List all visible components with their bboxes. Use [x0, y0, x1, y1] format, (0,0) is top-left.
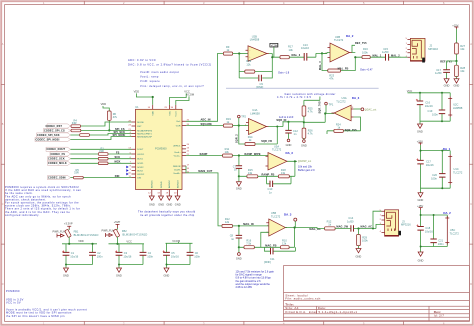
svg-text:C6: C6 — [195, 251, 199, 255]
svg-text:DGND: DGND — [161, 181, 163, 188]
IC U1 top pin names vertical — [153, 111, 178, 117]
jack J2 — [406, 38, 439, 62]
U2B feedback loop wires — [239, 54, 280, 79]
note: gain reduction divider — [277, 92, 336, 99]
wire VCC bottom rail — [119, 265, 143, 269]
svg-text:100k: 100k — [362, 239, 368, 243]
svg-text:VinL: delayed ramp, env-in, or: VinL: delayed ramp, env-in, or aux sync? — [140, 84, 204, 88]
capacitor C2 100n — [89, 243, 103, 265]
capacitor C17 10u/16 — [417, 160, 434, 167]
svg-text:TLC272: TLC272 — [450, 231, 460, 235]
svg-text:VCOM: VCOM — [172, 239, 180, 243]
svg-text:13k: 13k — [289, 48, 294, 52]
svg-text:FB1: FB1 — [74, 230, 79, 234]
svg-text:PCM3060: PCM3060 — [6, 289, 20, 293]
note: buffer gain — [298, 164, 315, 172]
svg-text:TLC272: TLC272 — [271, 214, 281, 218]
wire CODEC_SCK — [71, 158, 132, 160]
svg-text:CODEC_RST: CODEC_RST — [46, 125, 63, 128]
junction ramp fb node — [238, 175, 240, 177]
svg-text:100n: 100n — [194, 254, 200, 258]
ground VCC cluster right — [417, 124, 423, 133]
svg-text:12k: 12k — [282, 241, 287, 245]
svg-text:10u/16: 10u/16 — [425, 104, 433, 108]
global label CODEC_DOUT — [46, 147, 71, 151]
svg-text:SCKI1: SCKI1 — [137, 163, 144, 165]
svg-text:VoutL+: VoutL+ — [174, 154, 182, 157]
resistor R20 12k into mag — [222, 217, 232, 228]
resistor R15 13k — [247, 168, 258, 178]
wire SQR_IN to divider — [289, 121, 304, 124]
op-amp U3B TLC272 — [325, 35, 352, 62]
svg-text:D: D — [2, 282, 4, 286]
capacitor C1 10u/16 — [63, 244, 79, 265]
capacitor C22 1u/50 — [435, 64, 450, 79]
svg-text:DA_3: DA_3 — [352, 96, 360, 100]
resistor R17 13k — [280, 44, 293, 59]
svg-text:10k and 10k: 10k and 10k — [298, 164, 313, 168]
svg-text:MAG_IN: MAG_IN — [243, 223, 254, 226]
opamp power unit U2C LM4558 — [448, 97, 463, 118]
svg-text:DA_3: DA_3 — [284, 212, 292, 216]
svg-text:A: A — [470, 42, 472, 46]
svg-text:10k: 10k — [460, 47, 465, 51]
svg-text:tie all grounds together under: tie all grounds together under the chip — [140, 213, 195, 217]
svg-text:DOUT: DOUT — [137, 149, 144, 151]
svg-text:REF_7V5: REF_7V5 — [355, 42, 367, 45]
svg-text:B: B — [2, 122, 4, 126]
svg-text:configured individually.: configured individually. — [5, 213, 40, 217]
ground VDD cluster — [63, 268, 69, 278]
svg-text:10u/16: 10u/16 — [426, 163, 434, 167]
wire VCC rail — [109, 243, 145, 245]
svg-text:VDD: VDD — [134, 90, 140, 94]
svg-text:Buffer gain 2.0: Buffer gain 2.0 — [298, 168, 315, 172]
ground bottom right cluster — [418, 252, 424, 263]
wire VDD bottom rail — [66, 265, 93, 269]
svg-text:CODEC_SPI_SCK: CODEC_SPI_SCK — [37, 134, 60, 137]
svg-text:TLC272: TLC272 — [272, 148, 282, 152]
svg-text:MP3216: MP3216 — [428, 47, 438, 51]
junction U3B output — [354, 56, 356, 58]
svg-text:1u/50: 1u/50 — [435, 71, 442, 75]
ground VCOM cluster — [164, 268, 170, 278]
svg-text:C5: C5 — [171, 251, 175, 255]
svg-text:ADC_IN: ADC_IN — [201, 119, 211, 122]
global label REF_7V5 at U3B — [352, 42, 367, 53]
svg-text:LRCK2: LRCK2 — [137, 174, 145, 176]
wire U3B input from junction — [322, 53, 330, 54]
op-amp U5B TLC272 — [266, 211, 287, 236]
svg-text:33R: 33R — [72, 121, 77, 125]
wire CODEC_SPI_SCK — [71, 134, 132, 136]
svg-text:47k: 47k — [113, 115, 118, 119]
svg-text:C: C — [470, 202, 472, 206]
svg-text:RAMP_WIPE: RAMP_WIPE — [245, 153, 261, 156]
svg-text:GND: GND — [454, 84, 460, 88]
capacitor C3 10u/16 — [116, 244, 132, 265]
svg-text:DIN: DIN — [137, 178, 141, 180]
ground VCC cluster — [116, 268, 122, 278]
power flag +5VP — [102, 220, 121, 237]
svg-text:10u/16: 10u/16 — [123, 254, 131, 258]
svg-text:RAMP: RAMP — [200, 153, 208, 156]
svg-text:100n: 100n — [431, 176, 437, 180]
svg-text:C18: C18 — [425, 226, 430, 230]
wire CODEC_SPI_MOSI — [71, 137, 132, 140]
note: system clock paragraph — [5, 185, 81, 217]
ground under R26 — [301, 140, 307, 148]
capacitor C19 100n — [428, 109, 446, 116]
svg-text:MS/SDA/SCKF: MS/SDA/SCKF — [137, 136, 152, 139]
svg-text:10u/16: 10u/16 — [425, 229, 433, 233]
resistor R6 47k pull-up — [107, 111, 117, 131]
junction U2B output — [271, 56, 273, 58]
note: ADC/DAC voltage ranges — [128, 58, 212, 88]
capacitor C15 1u/50 series — [382, 47, 389, 61]
svg-text:DA_2: DA_2 — [443, 211, 451, 215]
capacitor C5 10u/16 — [163, 243, 179, 264]
global label CODEC_SPI_MOSI — [35, 137, 71, 141]
svg-text:100n: 100n — [432, 112, 438, 116]
IC U1 bottom pin stubs — [152, 190, 178, 197]
global label CODEC_FS — [50, 152, 71, 156]
svg-text:MCK: MCK — [115, 161, 121, 164]
U4B feedback loop R24 — [327, 117, 361, 134]
IC U1 top pin stubs — [153, 105, 176, 109]
global label CODEC_SPI_SCK — [37, 133, 71, 137]
svg-text:GND: GND — [301, 143, 307, 147]
svg-text:FB2: FB2 — [122, 229, 127, 233]
wire CODEC_SDIN to DIN — [71, 177, 132, 179]
wire VCOM bottom rail — [167, 265, 191, 269]
svg-text:100n: 100n — [97, 254, 103, 258]
capacitor C11 DNF — [264, 247, 295, 264]
junction divider mid — [303, 121, 305, 123]
svg-text:DA_1: DA_1 — [443, 147, 451, 151]
capacitor C13 10u/16 series — [301, 43, 309, 61]
svg-text:MP3216: MP3216 — [401, 223, 411, 227]
decoupling cluster VCC (U2/U4) — [407, 89, 450, 124]
no-connect marks on unused pins — [126, 166, 128, 176]
junction U2B input node — [238, 52, 240, 54]
svg-text:7.5k: 7.5k — [246, 241, 252, 245]
svg-text:12k: 12k — [225, 220, 230, 224]
svg-text:RST: RST — [137, 126, 142, 128]
capacitor C4 100n — [140, 244, 154, 265]
svg-text:+5VP: +5VP — [114, 220, 121, 224]
svg-text:SQR_IN: SQR_IN — [276, 119, 286, 122]
svg-text:Id: 2/7: Id: 2/7 — [434, 314, 444, 318]
svg-text:AGND3: AGND3 — [177, 180, 180, 188]
svg-text:LM4558: LM4558 — [250, 37, 260, 41]
svg-text:C1: C1 — [71, 251, 75, 255]
U5B feedback wires — [239, 228, 309, 248]
svg-text:BLM18KG471SN1D: BLM18KG471SN1D — [74, 233, 99, 237]
svg-text:TP2: TP2 — [241, 115, 246, 119]
svg-text:13k: 13k — [281, 171, 286, 175]
svg-text:CODEC_SPI_CS: CODEC_SPI_CS — [44, 129, 65, 132]
svg-text:10u/16: 10u/16 — [301, 46, 309, 50]
capacitor C16 10u/16 — [417, 100, 433, 108]
resistor R13 12k feedback — [245, 59, 255, 73]
wire R17 to C13 — [289, 53, 327, 57]
svg-text:AGND2: AGND2 — [168, 180, 171, 188]
resistor R11 13k — [223, 147, 233, 157]
global label CODEC_RST — [46, 124, 71, 128]
global label CODEC_SDIN — [48, 176, 71, 180]
svg-text:SQUARE: SQUARE — [201, 123, 213, 126]
op-amp U4B TLC272 (points left) — [332, 96, 355, 121]
capacitor C9 DNF feedback — [256, 75, 263, 90]
svg-text:SPI_MOSI: SPI_MOSI — [113, 134, 126, 137]
svg-text:SQR_7V5: SQR_7V5 — [319, 101, 322, 114]
IC U1 right pin numbers — [187, 120, 190, 174]
wire RAMP from IC pin 21 — [186, 155, 223, 157]
wire SQUARE from IC pin 26 — [186, 125, 223, 127]
IC U1 left pin numbers — [128, 120, 131, 178]
U4A feedback wires — [239, 122, 289, 144]
global label CODEC_MCLK — [48, 161, 71, 165]
decoupling cluster +15V (U5) bottom right — [417, 204, 447, 252]
svg-text:[DNF]: [DNF] — [256, 85, 263, 89]
resistor R29 100k — [357, 229, 369, 249]
svg-text:@RAMP_out: @RAMP_out — [298, 160, 312, 163]
wire divider mid to U4B — [304, 114, 334, 123]
svg-text:PCM3060: PCM3060 — [155, 147, 167, 151]
resistor R9 1k — [223, 45, 232, 55]
power label +15V at REF divider — [452, 23, 458, 43]
wire VCOM rail — [166, 242, 193, 243]
resistor R2 33R — [98, 157, 108, 160]
svg-text:MAL_2: MAL_2 — [391, 54, 400, 57]
svg-text:BCK2: BCK2 — [137, 170, 143, 172]
svg-text:C11: C11 — [270, 257, 275, 261]
resistor R14 1k feedback — [245, 135, 255, 146]
svg-text:D: D — [470, 282, 472, 286]
svg-text:VoutR+: VoutR+ — [173, 172, 181, 175]
svg-text:FS: FS — [116, 151, 120, 154]
power label VDD above IC — [134, 90, 154, 105]
svg-text:SQR_7V5: SQR_7V5 — [345, 129, 358, 132]
ferrite bead FB2 — [113, 228, 147, 244]
wire U4B upper input to DAC_out bullet — [354, 108, 361, 110]
ground under C12 — [286, 139, 292, 147]
bullet @DAC_out — [361, 108, 377, 112]
IC U1 left pin stubs — [132, 122, 136, 178]
svg-text:1u/50: 1u/50 — [382, 50, 389, 54]
svg-text:Gain ~0.47: Gain ~0.47 — [360, 67, 373, 71]
resistor R1 33R — [98, 147, 108, 156]
resistor R5 33R — [74, 168, 84, 179]
resistor R27 10k — [455, 43, 466, 61]
svg-text:C4: C4 — [148, 251, 152, 255]
svg-text:C: C — [2, 202, 4, 206]
svg-text:DIN: DIN — [115, 175, 120, 178]
svg-text:VCC: VCC — [126, 239, 132, 243]
svg-text:VDD: VDD — [101, 102, 107, 106]
svg-text:R17: R17 — [288, 44, 293, 48]
svg-text:GND: GND — [175, 203, 181, 207]
svg-text:4.7k: 4.7k — [308, 132, 314, 136]
svg-text:BCK1: BCK1 — [137, 159, 143, 161]
svg-text:C16: C16 — [425, 100, 430, 104]
svg-text:10u/16: 10u/16 — [70, 254, 78, 258]
resistor R19 1k — [223, 117, 232, 127]
svg-text:A: A — [2, 42, 4, 46]
svg-text:TLC272: TLC272 — [334, 38, 344, 42]
svg-text:33R: 33R — [99, 149, 104, 153]
svg-text:Vcom: Vcom — [176, 111, 178, 117]
title block frame — [284, 266, 470, 321]
svg-text:100n: 100n — [438, 242, 444, 246]
ground under R29 — [356, 249, 362, 259]
svg-text:CODEC_SPI_MOSI: CODEC_SPI_MOSI — [36, 138, 60, 141]
svg-text:33R: 33R — [74, 171, 79, 175]
note: grounds under chip — [138, 210, 196, 217]
svg-text:MD/SCL/FMT1: MD/SCL/FMT1 — [137, 133, 152, 135]
op-amp U4A LM4558 — [245, 108, 268, 134]
output circle flag — [294, 218, 297, 227]
wire ADC_IN from IC pin 25 — [186, 54, 223, 122]
global label REF_7V5 at divider — [440, 60, 457, 64]
svg-text:C2: C2 — [97, 251, 101, 255]
svg-text:SQR_FB: SQR_FB — [261, 140, 272, 143]
capacitor C10 parallel — [267, 176, 292, 194]
svg-text:BLM18KG471SN1D: BLM18KG471SN1D — [123, 233, 148, 237]
svg-text:[DNF]: [DNF] — [264, 260, 271, 264]
svg-text:1u/50: 1u/50 — [347, 220, 354, 224]
power flag +3.3VA — [53, 222, 73, 238]
wire R11 to U5A — [232, 155, 268, 157]
svg-text:47k: 47k — [329, 76, 334, 80]
svg-text:SCKI2: SCKI2 — [137, 167, 144, 169]
svg-text:AGND1: AGND1 — [151, 180, 154, 188]
wire R16 to C15 — [370, 56, 401, 58]
resistor R23 47k feedback — [328, 69, 341, 80]
global label CODEC_SPI_CS — [44, 128, 71, 132]
svg-text:VCC is 5V: VCC is 5V — [6, 301, 21, 305]
wire ramp feedback row — [239, 161, 297, 176]
svg-text:CODEC_SCK: CODEC_SCK — [48, 158, 65, 161]
capacitor C7 1n — [233, 156, 242, 177]
svg-text:VinR: square: VinR: square — [140, 79, 160, 83]
IC U1 right pin names — [173, 121, 181, 175]
op-amp U5A TLC272 — [266, 145, 288, 171]
wire into J2 pin — [401, 56, 408, 58]
junction R29 — [357, 227, 359, 229]
svg-text:DA_3: DA_3 — [286, 151, 294, 155]
resistor R4 33R — [71, 119, 81, 128]
ferrite bead FB1 — [65, 229, 99, 244]
capacitor C8 1n — [230, 226, 242, 247]
svg-text:GND: GND — [158, 203, 164, 207]
svg-text:C3: C3 — [124, 251, 128, 255]
svg-text:4.7k: 4.7k — [308, 110, 314, 114]
resistor R28 10k — [455, 61, 466, 79]
svg-text:VoutL-: VoutL- — [174, 151, 181, 154]
svg-text:GND: GND — [417, 129, 423, 133]
U3B feedback loop — [322, 53, 362, 71]
ground under C7 — [236, 176, 242, 190]
wire R9 to U2B input — [233, 53, 248, 55]
svg-text:MAG_FB: MAG_FB — [265, 245, 276, 248]
capacitor C6 100n — [187, 243, 201, 264]
svg-text:MAL_FB: MAL_FB — [338, 68, 349, 71]
resistor R16 7.5k — [244, 238, 254, 249]
ground under C22 — [444, 79, 450, 88]
svg-text:GND: GND — [167, 203, 173, 207]
test point circle TP1 — [325, 102, 334, 113]
IC U1 PCM3060 body — [136, 109, 183, 189]
svg-text:MAG_2W: MAG_2W — [336, 226, 348, 229]
title block text — [285, 293, 444, 317]
IC U1 left pin names — [137, 122, 153, 180]
polarized cap plus marks — [62, 99, 418, 252]
pull-up VDD label — [101, 102, 110, 111]
svg-text:TLC272: TLC272 — [453, 171, 463, 175]
svg-text:MAIN_OUT: MAIN_OUT — [198, 170, 212, 173]
svg-text:@DAC_out: @DAC_out — [365, 108, 377, 111]
svg-text:GND: GND — [444, 84, 450, 88]
resistor R18 13k — [278, 168, 289, 178]
svg-text:KiCad E.D.A. kicad 5.1.4+dfsg: KiCad E.D.A. kicad 5.1.4+dfsg1–1~bpo10+1 — [285, 310, 357, 314]
GND arrows under IC — [149, 196, 180, 200]
svg-text:File: audio_codec.sch: File: audio_codec.sch — [285, 297, 320, 301]
svg-text:VDD: VDD — [78, 239, 84, 243]
svg-text:C14: C14 — [348, 216, 353, 220]
resistor R26 4.7k — [302, 128, 313, 140]
opamp power unit U5C TLC272 — [445, 216, 459, 245]
svg-text:GND: GND — [356, 254, 362, 258]
svg-text:ADC: 0.9V to VCC: ADC: 0.9V to VCC — [128, 58, 156, 62]
svg-text:ZEROR: ZEROR — [173, 166, 181, 168]
power label VCOM above IC — [176, 93, 194, 105]
svg-text:GND: GND — [116, 274, 122, 278]
wire CODEC_RST to MODE pin — [81, 122, 132, 126]
IC U1 bottom pin numbers — [148, 193, 177, 195]
global label CODEC_SCK — [48, 157, 71, 161]
resistor R10 12k feedback — [280, 238, 289, 249]
svg-text:LM4558: LM4558 — [250, 111, 260, 115]
separator line under opamp row — [226, 87, 379, 89]
svg-text:LM4558: LM4558 — [453, 106, 463, 110]
wire R19 to U4A input — [233, 125, 249, 127]
resistor R16 100k — [362, 47, 370, 58]
svg-text:DA_2: DA_2 — [346, 34, 354, 38]
svg-text:LRCK1: LRCK1 — [137, 154, 145, 156]
svg-text:MAL_1: MAL_1 — [373, 54, 382, 57]
IC U1 bottom pin names vertical — [151, 180, 180, 188]
svg-text:PWR_FLAG: PWR_FLAG — [53, 230, 67, 234]
svg-text:GND: GND — [63, 274, 69, 278]
svg-text:C21: C21 — [438, 239, 443, 243]
op-amp U2B LM4558 — [246, 34, 270, 61]
wire VDD rail — [62, 243, 97, 245]
svg-text:MAG_AC: MAG_AC — [361, 225, 373, 228]
ground under R28 — [454, 79, 460, 88]
capacitor C14 1u/50 series — [347, 216, 359, 232]
wire to U5B plus input — [232, 225, 268, 227]
ground +15V cluster — [418, 193, 424, 202]
resistor R7 33R — [71, 129, 81, 132]
svg-text:CODEC_SDIN: CODEC_SDIN — [48, 177, 66, 180]
svg-text:TLC272: TLC272 — [336, 99, 346, 103]
wire CODEC_DOUT — [71, 148, 132, 150]
svg-text:GND: GND — [236, 256, 242, 260]
junction mag fb node — [238, 246, 240, 248]
svg-text:CODEC_MCLK: CODEC_MCLK — [48, 162, 67, 165]
